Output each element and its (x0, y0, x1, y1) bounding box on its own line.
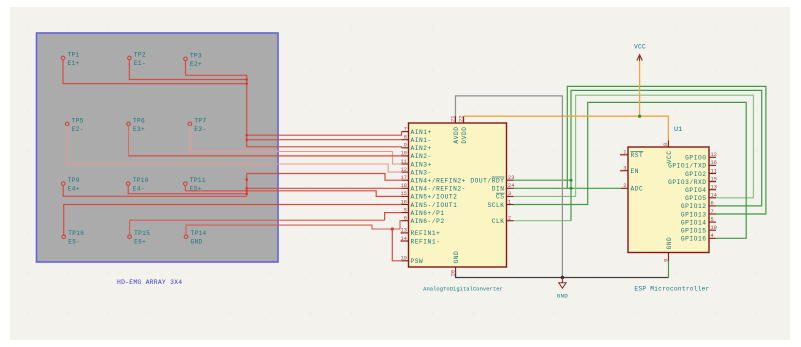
test point TP2 (E1-) (128, 52, 146, 68)
wire TP2 to bus A (129, 60, 246, 80)
svg-text:TP14: TP14 (191, 230, 207, 237)
svg-text:TP10: TP10 (133, 177, 149, 184)
ESP pin 12 GPIO0 (685, 152, 717, 162)
svg-text:GND: GND (557, 293, 569, 300)
wire TP5 to ADC pin 12 (67, 126, 401, 172)
ADC pin 14 REFIN1- (401, 236, 441, 246)
junction TP2/bus A (245, 78, 248, 81)
junction VCC rail (638, 115, 641, 118)
svg-text:E3-: E3- (194, 126, 206, 133)
svg-text:TP15: TP15 (134, 230, 150, 237)
svg-text:AIN4+/REFIN2+: AIN4+/REFIN2+ (411, 178, 466, 185)
wire TP10 to bus B (128, 186, 247, 194)
wire ADC CS to ESP GPIO5 (514, 95, 754, 198)
ESP pin 14 GPIO5 (685, 193, 717, 203)
junction DOUT node (570, 179, 573, 182)
svg-text:RST: RST (631, 152, 644, 159)
ESP pin 11 GPIO2 (685, 168, 717, 178)
ESP pin 9 GND (bottom) (663, 237, 673, 262)
svg-text:2: 2 (508, 216, 511, 222)
wire bus B to ADC pin 18 (247, 187, 402, 189)
ADC pin 1 SCLK (487, 199, 513, 209)
svg-text:12: 12 (711, 152, 717, 158)
test point TP7 (E3-) (188, 117, 206, 132)
svg-text:AIN2-: AIN2- (411, 153, 432, 160)
svg-text:AIN3+: AIN3+ (411, 161, 432, 168)
svg-text:15: 15 (711, 176, 717, 182)
ADC pin 19 PSW (401, 256, 424, 266)
svg-text:TP6: TP6 (133, 117, 145, 124)
ADC pin 10 AIN2- (401, 151, 432, 161)
svg-text:5: 5 (711, 217, 714, 223)
svg-text:22: 22 (458, 116, 464, 122)
ESP pin 10 GPIO15 (681, 225, 717, 235)
test point TP10 (E4-) (126, 177, 148, 193)
wire TP15 channel (130, 220, 385, 235)
svg-text:8: 8 (663, 143, 669, 146)
svg-text:3: 3 (508, 191, 511, 197)
svg-text:GPIO1/TXD: GPIO1/TXD (668, 163, 706, 170)
unconnected pin ends 13/14 (401, 232, 403, 242)
svg-text:13: 13 (711, 185, 717, 191)
wire bus A to ADC pin 9 (247, 147, 402, 148)
svg-text:E3+: E3+ (133, 126, 145, 133)
ESP pin 6 GPIO12 (681, 201, 716, 211)
HD-EMG electrode array box (37, 33, 279, 262)
ESP pin 7 GPIO13 (681, 209, 716, 219)
ESP pin 5 GPIO14 (681, 217, 716, 227)
ADC pin 18 AIN4-/REFIN2- (401, 183, 466, 193)
svg-text:GPIO13: GPIO13 (681, 211, 707, 218)
svg-text:PSW: PSW (411, 258, 424, 265)
wire CLK riser to ESP GPIO12 (571, 90, 762, 220)
svg-text:REFIN1+: REFIN1+ (411, 230, 441, 237)
svg-text:TP5: TP5 (72, 117, 84, 124)
ADC pin 7 AIN1+ (402, 126, 432, 136)
svg-text:GPIO3/RXD: GPIO3/RXD (668, 179, 706, 186)
junction DIN node (570, 187, 573, 190)
test point TP11 (E5+) (184, 177, 206, 193)
svg-text:E2-: E2- (72, 126, 84, 133)
svg-text:4: 4 (711, 233, 714, 239)
ground symbol GND (557, 278, 569, 300)
ADC pin 15 AIN5+/IOUT2 (401, 191, 458, 201)
svg-text:6: 6 (711, 201, 714, 207)
wire TP7 to ADC pin 11 (190, 126, 402, 164)
ADC pin 17 AIN4+/REFIN2+ (401, 175, 466, 185)
svg-text:16: 16 (401, 199, 407, 205)
svg-text:AnalogToDigitalConverter: AnalogToDigitalConverter (423, 286, 503, 293)
junction TP1/bus A (245, 82, 248, 85)
svg-text:AIN1+: AIN1+ (411, 129, 432, 136)
ADC pin 12 AIN3- (401, 167, 432, 177)
test point TP1 (E1+) (61, 52, 79, 68)
svg-text:9: 9 (404, 143, 407, 149)
svg-text:TP1: TP1 (68, 52, 80, 59)
svg-text:10: 10 (401, 151, 407, 157)
wire ESP GND drop (668, 261, 670, 278)
svg-text:GND: GND (191, 239, 203, 246)
svg-text:E4+: E4+ (68, 186, 80, 193)
wire TP3 to bus A (186, 61, 247, 76)
wire TP6 to ADC pin 10 (129, 155, 402, 157)
wire ADC DIN to ESP ADC pin (514, 187, 622, 189)
ADC pin 5 AIN6+/P1 (402, 207, 445, 217)
wire TP16 to ADC pin 16 (64, 205, 402, 235)
svg-text:11: 11 (401, 159, 407, 165)
svg-text:21: 21 (450, 116, 456, 122)
ADC pin 23 DOUT/RDY (470, 175, 514, 185)
svg-text:12: 12 (401, 167, 407, 173)
svg-text:AIN5-/IOUT1: AIN5-/IOUT1 (411, 202, 458, 209)
label HD-EMG ARRAY 3X4 (117, 279, 182, 286)
svg-text:VCC: VCC (666, 151, 673, 164)
svg-text:E2+: E2+ (190, 61, 202, 68)
ESP pin 8 VCC (top) (663, 140, 673, 163)
ADC pin 21 AVDD (top) (450, 116, 460, 144)
svg-text:TP2: TP2 (134, 52, 146, 59)
wire bus B to ADC pin 15 (247, 191, 402, 197)
ADC pin 11 AIN3+ (401, 159, 432, 169)
svg-text:10: 10 (711, 225, 717, 231)
power symbol VCC (634, 44, 646, 62)
ADC pin 2 CLK (492, 216, 514, 226)
test point TP14 (GND) (184, 230, 206, 246)
svg-text:TP9: TP9 (68, 177, 80, 184)
svg-text:AIN4-/REFIN2-: AIN4-/REFIN2- (411, 186, 466, 193)
svg-text:E1+: E1+ (68, 60, 80, 67)
svg-text:AIN6-/P2: AIN6-/P2 (411, 218, 445, 225)
svg-text:CLK: CLK (492, 218, 505, 225)
wire node P2 to ADC pin 19 PSW (392, 229, 401, 261)
svg-text:U1: U1 (674, 126, 682, 134)
svg-text:7: 7 (404, 126, 407, 132)
svg-text:6: 6 (404, 216, 407, 222)
svg-text:GPIO4: GPIO4 (685, 187, 706, 194)
wire ADC CLK horizontal (514, 220, 572, 222)
svg-text:19: 19 (401, 256, 407, 262)
svg-text:18: 18 (401, 183, 407, 189)
svg-text:24: 24 (508, 183, 514, 189)
svg-text:GPIO14: GPIO14 (681, 219, 707, 226)
svg-text:AIN2+: AIN2+ (411, 145, 432, 152)
svg-text:GPIO2: GPIO2 (685, 171, 706, 178)
wire TP9 to bus B (63, 186, 247, 197)
ADC pin 8 AIN1- (402, 135, 432, 145)
svg-text:E6+: E6+ (134, 239, 146, 246)
wire TP6 stem (128, 126, 130, 156)
svg-text:AIN6+/P1: AIN6+/P1 (411, 210, 445, 217)
wire VCC rail DVDD to ESP VCC (464, 116, 669, 140)
svg-text:GPIO5: GPIO5 (685, 195, 706, 202)
wire DIN riser to ESP GPIO13 (567, 86, 766, 214)
svg-text:E5-: E5- (68, 239, 80, 246)
test point TP16 (E5-) (62, 230, 84, 246)
wire TP1 to bus A (63, 60, 247, 84)
value label AnalogToDigitalConverter (423, 286, 503, 293)
wire TP14 to ADC pin 6 (186, 221, 402, 235)
svg-text:1: 1 (623, 150, 626, 156)
wire vertical bus B (246, 174, 248, 197)
svg-text:GPIO16: GPIO16 (681, 236, 707, 243)
svg-text:EN: EN (631, 168, 640, 175)
junction TP10/bus B (245, 192, 248, 195)
svg-text:17: 17 (401, 175, 407, 181)
svg-text:11: 11 (711, 168, 717, 174)
junction channel pin7 (245, 134, 248, 137)
ADC pin 22 DVDD (top) (458, 116, 468, 144)
test point TP9 (E4+) (61, 177, 79, 193)
test point TP6 (E3+) (127, 117, 145, 132)
ADC pin 16 AIN5-/IOUT1 (401, 199, 458, 209)
svg-text:HD–EMG ARRAY 3X4: HD–EMG ARRAY 3X4 (117, 279, 182, 286)
junction ground rail (561, 276, 564, 279)
svg-text:DVDD: DVDD (461, 127, 468, 144)
ESP pin 4 GPIO16 (681, 233, 716, 243)
ESP pin 13 GPIO4 (685, 185, 717, 195)
svg-text:AIN3-: AIN3- (411, 169, 432, 176)
wire TP15 jog to ADC pin 5 (385, 213, 402, 221)
svg-text:ADC: ADC (631, 186, 644, 193)
IC AnalogToDigitalConverter body (409, 123, 507, 267)
svg-text:CS: CS (496, 194, 505, 201)
svg-text:5: 5 (404, 207, 407, 213)
wire bus A to ADC pin 8 (247, 139, 402, 141)
svg-text:GPIO15: GPIO15 (681, 228, 707, 235)
svg-text:E4-: E4- (133, 186, 145, 193)
svg-text:GPIO12: GPIO12 (681, 203, 707, 210)
ESP pin 2 ADC (621, 183, 643, 193)
wire vertical bus A (246, 75, 248, 147)
ESP pin 3 EN (621, 166, 639, 176)
test point TP5 (E2-) (65, 117, 83, 132)
wire bus A to ADC pin 7 (247, 132, 402, 136)
svg-text:8: 8 (404, 135, 407, 141)
svg-text:DOUT/RDY: DOUT/RDY (470, 178, 504, 185)
test point TP3 (E2+) (184, 52, 202, 68)
svg-text:E5+: E5+ (190, 186, 202, 193)
svg-text:DIN: DIN (492, 186, 505, 193)
svg-text:REFIN1-: REFIN1- (411, 238, 441, 245)
svg-text:2: 2 (623, 183, 626, 189)
svg-text:VCC: VCC (634, 44, 646, 51)
junction bus B upper (245, 178, 248, 181)
ESP pin 16 GPIO1/TXD (668, 160, 717, 170)
svg-text:TP7: TP7 (194, 117, 206, 124)
ADC pin 13 REFIN1+ (401, 228, 441, 238)
svg-text:15: 15 (401, 191, 407, 197)
wire TP11 to bus B (185, 186, 246, 191)
svg-text:23: 23 (508, 175, 514, 181)
svg-text:14: 14 (711, 193, 717, 199)
wire ADC SCLK to ESP GPIO16 (514, 102, 747, 238)
test point TP15 (E6+) (128, 230, 150, 246)
unconnected ESP pin ends 1/3 (620, 154, 622, 172)
svg-text:TP11: TP11 (190, 177, 206, 184)
IC U1 ESP Microcontroller body (628, 147, 709, 253)
ADC pin 9 AIN2+ (402, 143, 432, 153)
reference designator U1 (674, 126, 682, 134)
wire AVDD loop to ground rail (456, 96, 563, 278)
svg-text:16: 16 (711, 160, 717, 166)
wire ADC DOUT/RDY to node (514, 179, 572, 181)
svg-text:GND: GND (666, 237, 673, 250)
svg-text:TP3: TP3 (190, 52, 202, 59)
svg-text:GND: GND (453, 251, 460, 264)
value label ESP Microcontroller (634, 286, 709, 293)
ADC pin 6 AIN6-/P2 (402, 216, 445, 226)
svg-text:TP16: TP16 (68, 230, 84, 237)
junction TP11/bus B (245, 190, 248, 193)
ESP pin 1 RST (621, 150, 643, 160)
svg-text:3: 3 (623, 166, 626, 172)
junction bus B pin18 (245, 187, 248, 190)
svg-text:7: 7 (711, 209, 714, 215)
svg-text:SCLK: SCLK (487, 202, 504, 209)
wire bus B to ADC pin 17 (247, 174, 402, 181)
svg-text:AIN5+/IOUT2: AIN5+/IOUT2 (411, 194, 458, 201)
ADC pin 20 GND (bottom) (450, 251, 460, 277)
wire ground rail (456, 272, 669, 277)
junction PSW branch (391, 227, 394, 230)
ESP pin 15 GPIO3/RXD (668, 176, 717, 186)
svg-text:GPIO0: GPIO0 (685, 155, 706, 162)
svg-text:E1-: E1- (134, 60, 146, 67)
svg-text:ESP Microcontroller: ESP Microcontroller (634, 286, 709, 293)
svg-text:AVDD: AVDD (453, 127, 460, 144)
wire VCC stem (639, 61, 641, 116)
ADC pin 24 DIN (492, 183, 515, 193)
junction channel pin8 (245, 138, 248, 141)
svg-text:AIN1-: AIN1- (411, 137, 432, 144)
svg-text:1: 1 (508, 199, 511, 205)
ADC pin 3 CS (496, 191, 514, 201)
